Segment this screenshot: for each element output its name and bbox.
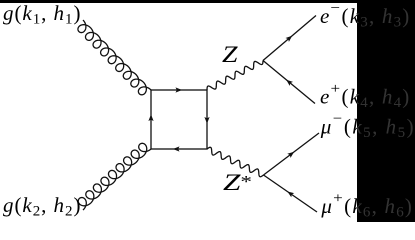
svg-text:Z: Z [222, 42, 238, 67]
